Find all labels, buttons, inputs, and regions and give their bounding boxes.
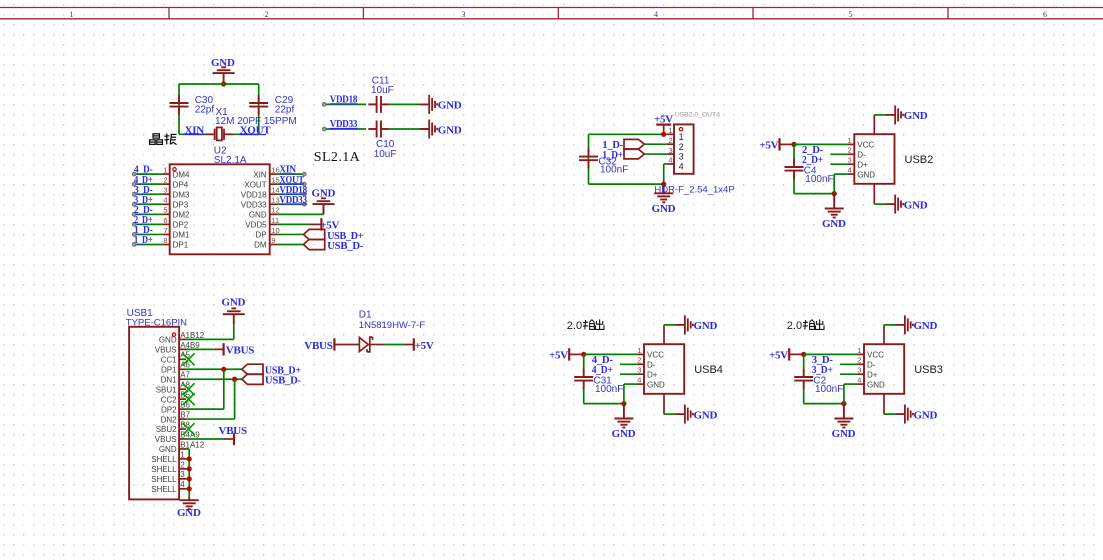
svg-text:GND: GND [652,203,676,215]
wire HDR bottom [589,183,664,185]
ground [223,308,245,324]
U2 pin 15 XOUT [270,183,278,185]
svg-text:D-: D- [857,151,866,160]
wire USB1 VBUS(A4B9) [186,348,214,350]
ground [886,105,904,124]
text 晶振 (crystal) [150,133,177,144]
svg-text:SHELL: SHELL [151,485,177,494]
node VDD18 net label [322,103,326,107]
svg-text:GND: GND [904,199,928,211]
U2 pin 2 DP4 [136,183,163,185]
sheet ruler band [0,8,1103,19]
port 1_D- [624,139,644,149]
svg-text:1: 1 [668,126,672,135]
U2 pin 14 VDD18 [270,193,278,195]
ground (USB2 left) [825,194,844,218]
svg-text:USB2: USB2 [905,154,934,166]
op IC U2 SL2.1A body [170,164,270,254]
svg-text:SHELL: SHELL [151,455,177,464]
svg-text:3: 3 [163,186,167,195]
svg-text:3: 3 [857,366,861,375]
port 1_D+ [624,149,644,159]
svg-text:D+: D+ [647,370,658,379]
junction DP1/DP2 [221,367,226,372]
svg-text:1: 1 [679,132,684,142]
svg-text:5: 5 [163,206,167,215]
svg-text:GND: GND [914,320,938,332]
wire USB3 bottom gnd [883,394,885,414]
power flag +5V (U2) [320,218,322,230]
svg-text:VBUS: VBUS [219,425,247,437]
wire [389,128,419,130]
junction HDR gnd [661,182,666,187]
wire USB1 DP2 up to DP1 [186,408,224,410]
svg-text:4: 4 [163,196,167,205]
svg-text:3_D+: 3_D+ [812,364,833,376]
svg-text:2: 2 [848,146,852,155]
HDR pin 4 [667,163,674,165]
svg-text:USB_D-: USB_D- [265,375,302,387]
svg-text:22pf: 22pf [195,105,215,116]
wire USB4 bottom gnd [663,394,665,414]
junction +5V/pin1 [661,132,666,137]
port USB_D+ (U2) [304,229,325,239]
svg-text:B1A12: B1A12 [180,440,205,449]
wire [389,103,419,105]
svg-text:DN1: DN1 [161,375,178,384]
junction DN1/DN2 [232,377,237,382]
svg-text:GND: GND [438,124,462,136]
svg-text:VCC: VCC [647,351,664,360]
svg-text:VBUS: VBUS [304,340,332,352]
svg-text:GND: GND [857,170,875,179]
svg-text:2: 2 [668,136,672,145]
svg-text:VBUS: VBUS [226,345,254,357]
svg-text:+5V: +5V [549,350,568,362]
svg-text:USB_D-: USB_D- [327,240,364,252]
svg-text:GND: GND [694,409,718,421]
wire D1 cathode [370,344,384,346]
wire HDR pin4 [664,163,667,165]
svg-text:10: 10 [271,226,279,235]
svg-text:+5V: +5V [769,350,788,362]
svg-text:DP3: DP3 [173,200,189,209]
wire USB4 cap branch [583,354,585,370]
wire USB1 DP1 [186,368,242,370]
diode D1 1N5819HW-7-F [359,338,368,352]
HDR pin 2 [667,143,674,145]
svg-text:3: 3 [462,10,466,19]
svg-text:2_D+: 2_D+ [802,154,823,166]
svg-text:4: 4 [679,162,684,172]
svg-text:SBU1: SBU1 [156,385,177,394]
wire USB3 D+ [840,373,857,375]
wire USB1 DN1 [186,378,242,380]
junction (crystal gnd) [221,81,226,86]
svg-text:GND: GND [647,380,665,389]
svg-text:3: 3 [668,146,672,155]
U2 pin 10 DP [270,233,278,235]
svg-text:3: 3 [637,366,641,375]
no-connect CC2 [183,393,195,405]
wire USB2 top gnd [873,115,875,134]
svg-text:1: 1 [70,10,74,19]
svg-text:11: 11 [271,216,279,225]
svg-text:2: 2 [637,356,641,365]
svg-text:7: 7 [163,226,167,235]
svg-text:3: 3 [679,152,684,162]
junction gnd USB4 [621,401,626,406]
wire HDR left branch [588,134,590,184]
capacitor C4 [785,159,804,179]
capacitor C30 [170,95,189,115]
wire USB2 GND pin [833,174,835,194]
capacitor C29 [249,95,268,115]
junction shell [187,466,192,471]
svg-text:GND: GND [249,211,267,220]
wire USB2 D- [830,153,847,155]
U2 pin 8 DP1 [136,244,163,246]
svg-text:USB3: USB3 [914,364,943,376]
svg-text:+5V: +5V [759,140,778,152]
svg-text:12: 12 [271,206,279,215]
wire crystal right [258,84,260,134]
svg-text:D-: D- [867,361,876,370]
wire crystal top [179,83,259,85]
svg-text:HDR-F_2.54_1x4P: HDR-F_2.54_1x4P [654,184,734,195]
wire U2 DM [278,244,304,246]
wire USB2 D+ [830,163,847,165]
svg-text:B7: B7 [180,410,190,419]
wire USB2 VCC [794,143,847,145]
U2 pin 5 DM2 [136,213,163,215]
svg-text:1: 1 [637,346,641,355]
junction gnd USB2 [832,191,837,196]
HDR pin 3 [667,153,674,155]
power flag +5V (D1) [413,338,415,350]
connector HDR-F_2.54_1x4P body [674,124,694,173]
wire HDR pin3 [644,153,666,155]
ground (HDR) [654,184,673,202]
power flag VBUS (A4B9) [223,343,225,355]
svg-text:2.0: 2.0 [567,320,582,332]
junction shell [187,486,192,491]
U2 pin 3 DM3 [136,193,163,195]
wire USB3 D- [840,363,857,365]
svg-text:2: 2 [180,460,185,469]
no-connect SBU2 [183,423,195,435]
svg-text:VDD5: VDD5 [245,221,267,230]
capacitor C32 [579,148,598,168]
wire USB4 D- [620,363,637,365]
svg-text:10uF: 10uF [374,149,397,160]
svg-text:4: 4 [637,376,641,385]
svg-text:SL2.1A: SL2.1A [314,150,361,165]
wire USB1 shell gnd bus [186,448,189,450]
svg-text:DM: DM [254,241,267,250]
svg-text:D+: D+ [857,160,868,169]
svg-text:DP2: DP2 [161,405,177,414]
svg-text:GND: GND [222,297,246,309]
junction shell [187,476,192,481]
svg-text:D1: D1 [359,310,372,321]
wire U2 DP [278,233,304,235]
svg-text:100nF: 100nF [815,384,843,395]
wire USB1 DN2 up to DN1 [186,418,235,420]
wire VDD33 [326,128,366,130]
svg-text:VCC: VCC [867,351,884,360]
svg-text:D-: D- [647,361,656,370]
svg-text:4_D+: 4_D+ [592,364,613,376]
svg-text:GND: GND [159,445,177,454]
svg-text:GND: GND [904,110,928,122]
svg-text:1: 1 [163,166,167,175]
svg-text:DP4: DP4 [173,180,189,189]
wire USB4 D+ [620,373,637,375]
svg-text:SHELL: SHELL [151,475,177,484]
svg-text:GND: GND [612,428,636,440]
U2 pin 12 GND [270,213,278,215]
port USB_D- (U2) [304,239,325,249]
wire VBUS to D1 [335,344,359,346]
svg-text:1: 1 [857,346,861,355]
svg-text:+5V: +5V [415,340,434,352]
ground [420,95,438,114]
svg-text:GND: GND [159,336,177,345]
no-connect CC1 [183,353,195,365]
ground [213,67,235,84]
svg-text:DM4: DM4 [173,170,190,179]
ground [886,195,904,214]
svg-text:2: 2 [679,142,684,152]
connector USB3 body [864,344,904,394]
U2 pin 9 DM [270,244,278,246]
wire USB3 top gnd [883,325,885,344]
wire crystal bottom [179,133,213,135]
svg-text:4: 4 [654,10,658,19]
wire USB1 GND(A1B12) to ground [186,338,234,340]
junction shell [187,456,192,461]
svg-text:GND: GND [694,320,718,332]
wire USB4 gnd bottom [584,403,624,405]
svg-text:2: 2 [163,176,167,185]
wire USB3 gnd bottom [804,403,844,405]
svg-text:3: 3 [180,470,185,479]
svg-text:GND: GND [867,380,885,389]
svg-text:4: 4 [668,156,672,165]
svg-text:22pf: 22pf [275,105,295,116]
svg-text:XOUT: XOUT [244,180,266,189]
svg-text:DM3: DM3 [173,190,190,199]
svg-text:1: 1 [180,450,185,459]
ground [895,405,913,424]
svg-text:DP1: DP1 [161,365,177,374]
svg-text:USB4: USB4 [694,364,723,376]
connector USB2 body [854,134,894,184]
svg-text:A7: A7 [180,371,190,380]
U2 pin 1 DM4 [136,173,163,175]
svg-text:USB2.0_OUT4: USB2.0_OUT4 [675,111,721,118]
svg-text:GND: GND [822,218,846,230]
svg-text:DP2: DP2 [173,221,189,230]
svg-text:DP: DP [255,231,266,240]
svg-text:CC1: CC1 [161,356,178,365]
port USB_D- (USB1) [242,374,263,384]
svg-text:SBU2: SBU2 [156,425,177,434]
wire HDR pin2 [644,143,666,145]
svg-text:GND: GND [832,428,856,440]
svg-text:VDD18: VDD18 [241,190,267,199]
svg-text:4: 4 [848,166,852,175]
ground (USB1 bottom) [180,497,199,509]
svg-text:XIN: XIN [253,170,267,179]
wire USB2 cap branch [793,144,795,160]
svg-text:GND: GND [177,507,201,519]
wire USB4 GND pin [623,384,625,404]
ground [675,315,693,334]
HDR pin 1 [667,133,674,135]
svg-text:VCC: VCC [857,141,874,150]
U2 pin 13 VDD33 [270,203,278,205]
svg-text:5: 5 [849,10,853,19]
ground (USB4 left) [614,404,633,428]
wire VDD18 [326,103,366,105]
svg-text:6: 6 [1043,10,1047,19]
wire USB3 VCC [804,353,857,355]
svg-text:100nF: 100nF [805,174,833,185]
wire USB4 top gnd [663,325,665,344]
svg-text:CC2: CC2 [161,395,178,404]
svg-text:6: 6 [163,216,167,225]
svg-text:100nF: 100nF [595,384,623,395]
node VDD33 net label [322,127,326,131]
junction +5V USB2 [791,142,796,147]
svg-text:3: 3 [848,156,852,165]
port USB_D+ (USB1) [242,364,263,374]
svg-text:DP1: DP1 [173,241,189,250]
capacitor C31 [574,369,593,389]
crystal X1 [205,127,233,140]
ground [675,405,693,424]
wire HDR pin1 [589,133,667,135]
U2 pin 4 DP3 [136,203,163,205]
junction +5V USB4 [581,352,586,357]
svg-text:10uF: 10uF [371,85,394,96]
power flag VBUS bar [333,338,335,350]
svg-text:2.0: 2.0 [787,320,802,332]
capacitor C10 [368,121,389,138]
svg-text:9: 9 [271,236,275,245]
svg-text:GND: GND [914,409,938,421]
svg-text:GND: GND [438,100,462,112]
U2 pin 11 VDD5 [270,223,278,225]
U2 pin 6 DP2 [136,223,163,225]
wire U2 VDD5 to +5V [278,223,309,225]
power flag VBUS (B4A9) [233,433,235,445]
svg-text:A1B12: A1B12 [180,331,205,340]
svg-text:VBUS: VBUS [155,346,177,355]
junction gnd USB3 [841,401,846,406]
ground [895,315,913,334]
svg-text:VDD33: VDD33 [241,200,267,209]
junction +5V USB3 [801,352,806,357]
wire USB3 cap branch [803,354,805,370]
svg-text:DM2: DM2 [173,211,190,220]
ground (USB3 left) [834,404,853,428]
ground [420,120,438,139]
wire USB1 VBUS(B4A9) [186,438,223,440]
capacitor C11 [368,96,389,113]
svg-text:DM1: DM1 [173,231,190,240]
svg-text:8: 8 [163,236,167,245]
connector USB4 body [644,344,684,394]
svg-text:4: 4 [180,480,185,489]
svg-text:1N5819HW-7-F: 1N5819HW-7-F [359,320,426,331]
svg-text:D+: D+ [867,370,878,379]
svg-text:1: 1 [848,136,852,145]
U2 pin 16 XIN [270,173,278,175]
wire USB3 GND pin [843,384,845,404]
U2 pin 7 DM1 [136,233,163,235]
capacitor C2 [794,369,813,389]
wire U2 GND to ground [278,213,324,215]
svg-text:VBUS: VBUS [155,435,177,444]
wire USB2 bottom gnd [873,184,875,204]
svg-text:SHELL: SHELL [151,465,177,474]
svg-text:2: 2 [265,10,269,19]
svg-text:4: 4 [857,376,861,385]
svg-text:DN2: DN2 [161,415,178,424]
wire USB4 VCC [584,353,637,355]
ground [313,198,335,214]
svg-text:A4B9: A4B9 [180,341,200,350]
svg-text:2: 2 [857,356,861,365]
wire USB2 gnd bottom [794,193,834,195]
svg-text:100nF: 100nF [600,165,628,176]
svg-text:1_D+: 1_D+ [134,234,153,246]
no-connect SBU1 [183,383,195,395]
wire crystal left [178,84,180,134]
